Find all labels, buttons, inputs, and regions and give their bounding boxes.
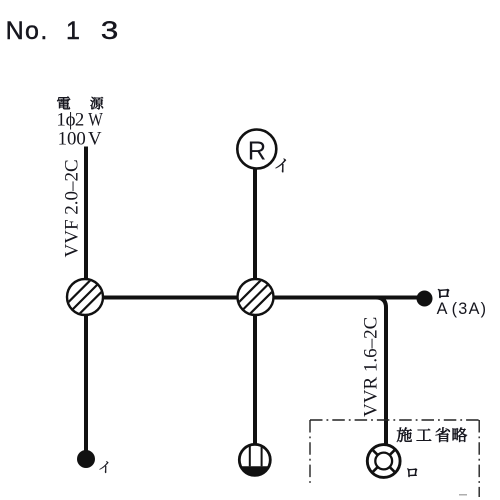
svg-text:No.: No. bbox=[6, 17, 49, 45]
label イ (lamp R) bbox=[275, 159, 286, 173]
label: power source 電源 bbox=[57, 97, 103, 110]
label 施工省略 bbox=[397, 427, 467, 442]
wire: power feed down to junction box J1 bbox=[84, 147, 88, 291]
label ロ (automatic switch) bbox=[438, 289, 449, 298]
svg-text:W: W bbox=[88, 109, 103, 130]
wire: J2 up to lamp R bbox=[253, 168, 257, 297]
automatic switch dot A(3A) bbox=[417, 291, 433, 307]
junction box J2 (center, hatched) bbox=[236, 277, 276, 317]
svg-text:A(3A): A(3A) bbox=[437, 300, 488, 318]
dashed construction-omitted box bbox=[310, 420, 479, 497]
svg-text:VVR 1.6–2C: VVR 1.6–2C bbox=[361, 317, 382, 417]
switch イ (single pole) bbox=[77, 450, 95, 468]
ceiling rosette (bottom centre) bbox=[239, 444, 270, 475]
svg-text:VVF 2.0–2C: VVF 2.0–2C bbox=[62, 159, 83, 257]
lamp receptacle R (イ) bbox=[237, 130, 276, 169]
wire: J2 down to ceiling rosette bbox=[253, 297, 257, 445]
svg-text:100V: 100V bbox=[58, 128, 102, 149]
svg-text:1: 1 bbox=[66, 17, 80, 45]
wire: J1 to J2 horizontal bbox=[86, 296, 424, 300]
faint bottom dash of omitted box bbox=[459, 494, 467, 496]
label イ (switch) bbox=[100, 461, 109, 473]
wire: J1 down to switch bbox=[84, 297, 88, 453]
outdoor light ロ (double circle with spokes) bbox=[367, 445, 400, 478]
wire: branch elbow down to outdoor light (VVR run) bbox=[376, 298, 386, 445]
svg-text:3: 3 bbox=[101, 16, 118, 44]
title No. 13 bbox=[6, 16, 119, 45]
junction box J1 (left, hatched) bbox=[65, 277, 105, 317]
label ロ (outdoor light) bbox=[407, 469, 417, 478]
svg-text:R: R bbox=[248, 138, 266, 166]
